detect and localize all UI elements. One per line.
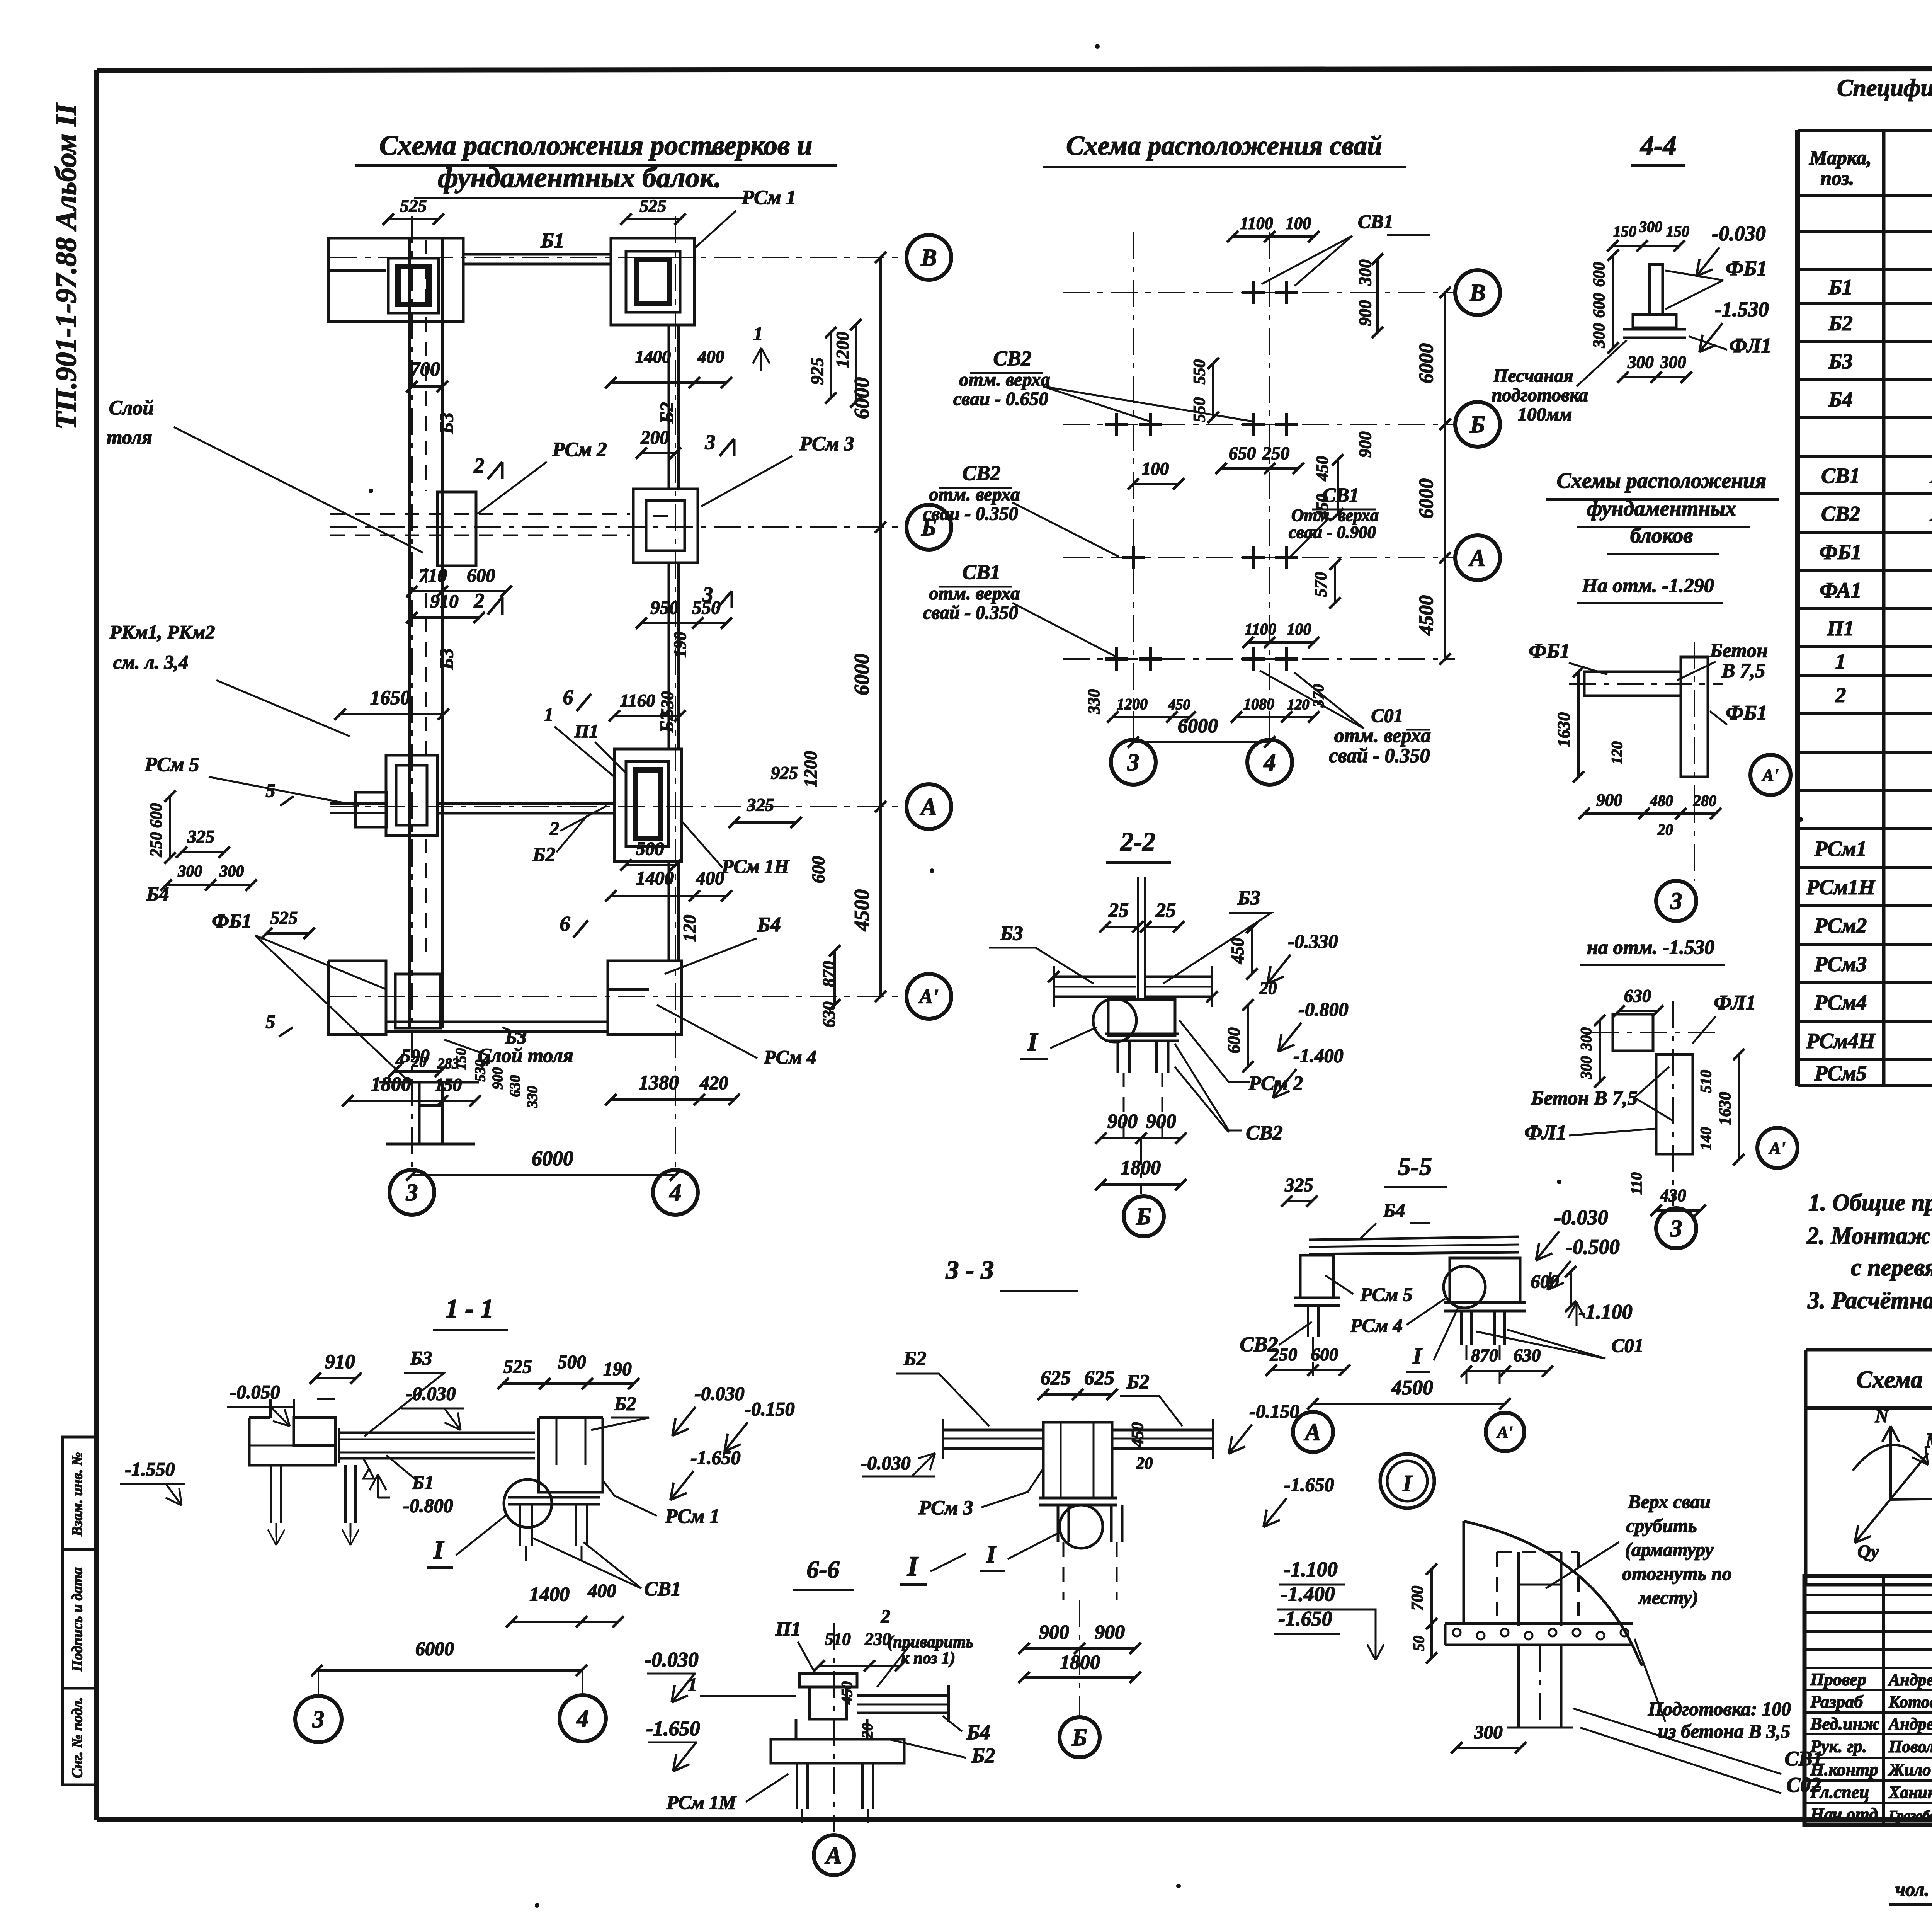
svg-text:570: 570 [1312,572,1330,597]
svg-text:ФБ1: ФБ1 [1726,257,1767,280]
svg-text:I: I [907,1551,919,1582]
svg-text:420: 420 [699,1072,728,1093]
svg-text:Марка,: Марка, [1809,147,1872,169]
svg-text:РСм3: РСм3 [1814,952,1867,976]
svg-text:Гразобожнов: Гразобожнов [1888,1808,1932,1823]
svg-text:СВ1: СВ1 [962,560,1000,584]
svg-text:325: 325 [187,827,215,847]
svg-text:3. Расчётная нагрузка на сваю: 3. Расчётная нагрузка на сваю Nсв = 25,0… [1807,1287,1932,1314]
svg-text:1: 1 [753,323,763,344]
svg-text:ТП.901-1-97.88 Альбом II: ТП.901-1-97.88 Альбом II [50,103,82,430]
svg-text:510: 510 [825,1629,851,1649]
svg-text:190: 190 [670,632,690,658]
svg-text:поз.: поз. [1820,167,1854,189]
svg-text:1200: 1200 [1117,695,1148,713]
svg-text:2: 2 [549,818,560,839]
svg-text:20: 20 [1259,979,1277,998]
svg-text:480: 480 [1650,792,1673,809]
svg-text:ФЛ1: ФЛ1 [1714,991,1756,1014]
svg-text:ФА1: ФА1 [1820,578,1861,602]
svg-text:4500: 4500 [850,889,873,931]
svg-text:900: 900 [1107,1110,1138,1132]
svg-text:1080: 1080 [1243,695,1274,713]
svg-text:Провер: Провер [1810,1670,1866,1689]
svg-text:3: 3 [1670,1216,1682,1242]
svg-text:фундаментных балок.: фундаментных балок. [438,162,721,194]
svg-text:50: 50 [1410,1636,1427,1651]
svg-text:-0.500: -0.500 [1566,1235,1619,1258]
svg-text:сваи - 0.900: сваи - 0.900 [1289,523,1376,542]
svg-text:-0.030: -0.030 [406,1382,456,1404]
svg-text:3: 3 [705,431,716,454]
svg-text:В: В [1469,280,1485,306]
svg-text:300: 300 [1577,1027,1595,1051]
svg-text:1800: 1800 [371,1073,411,1095]
svg-text:сваи - 0.650: сваи - 0.650 [953,388,1048,409]
svg-text:РСм 3: РСм 3 [918,1497,973,1519]
svg-text:4: 4 [669,1180,682,1206]
svg-text:Б2: Б2 [532,844,555,866]
svg-text:на отм. -1.530: на отм. -1.530 [1587,936,1714,958]
svg-text:25: 25 [1108,899,1129,921]
svg-text:550: 550 [692,597,721,618]
svg-text:фундаментных: фундаментных [1587,497,1736,521]
svg-text:1: 1 [1835,650,1846,673]
svg-text:430: 430 [1660,1186,1686,1205]
svg-text:-0.030: -0.030 [1554,1206,1608,1229]
svg-text:Схема расположения свай: Схема расположения свай [1066,131,1382,161]
svg-text:925: 925 [807,358,827,385]
svg-text:-0.330: -0.330 [1288,930,1338,952]
svg-text:Нач.отд.: Нач.отд. [1810,1804,1882,1824]
svg-text:-1.530: -1.530 [1715,298,1769,321]
svg-text:РСм 5: РСм 5 [144,754,199,776]
svg-text:1 - 1: 1 - 1 [446,1294,494,1323]
svg-text:А: А [1303,1419,1321,1445]
svg-text:с перевязкой швов.: с перевязкой швов. [1851,1255,1932,1281]
svg-text:Б2: Б2 [656,402,677,424]
svg-text:РСм 1Н: РСм 1Н [721,855,790,877]
svg-text:СВ1: СВ1 [644,1578,681,1600]
svg-text:280: 280 [1693,792,1716,809]
svg-text:120: 120 [1287,696,1310,713]
svg-text:870: 870 [1471,1345,1498,1365]
svg-text:А': А' [1768,1139,1786,1158]
svg-text:Мх: Мх [1925,1429,1932,1452]
svg-text:525: 525 [503,1356,532,1377]
svg-text:3: 3 [406,1180,418,1206]
svg-text:СВ1: СВ1 [1784,1747,1823,1770]
svg-text:-1.400: -1.400 [1281,1582,1335,1605]
svg-text:Б3: Б3 [1000,923,1023,945]
svg-text:А': А' [1496,1423,1513,1441]
svg-text:ФБ1: ФБ1 [1820,540,1862,564]
svg-text:СВ2: СВ2 [1246,1122,1282,1144]
svg-text:300: 300 [1660,352,1686,372]
svg-text:300: 300 [1474,1721,1503,1743]
svg-text:I: I [1412,1343,1423,1369]
svg-text:Б2: Б2 [1126,1371,1149,1393]
svg-text:-0.030: -0.030 [1712,222,1765,245]
svg-text:Бетон: Бетон [1709,640,1768,662]
svg-text:ГОСТ 19804.1-79*: ГОСТ 19804.1-79* [1930,464,1932,487]
svg-text:Ханин: Ханин [1888,1783,1932,1802]
svg-text:-0.030: -0.030 [645,1648,698,1671]
svg-text:2: 2 [474,454,485,477]
svg-text:СВ2: СВ2 [993,347,1031,370]
svg-text:Б4: Б4 [1828,388,1852,411]
svg-text:5: 5 [266,780,276,801]
svg-text:525: 525 [270,908,298,928]
svg-text:625: 625 [1041,1367,1071,1389]
svg-text:6000: 6000 [415,1638,454,1659]
svg-text:400: 400 [697,347,724,366]
svg-text:300: 300 [1590,323,1608,349]
svg-text:С01: С01 [1611,1335,1643,1356]
svg-text:отогнуть по: отогнуть по [1622,1563,1732,1584]
svg-text:N: N [1875,1406,1889,1427]
svg-text:100: 100 [1286,214,1311,233]
svg-text:Андреева: Андреева [1888,1670,1932,1689]
svg-text:330: 330 [524,1086,541,1108]
svg-text:1400: 1400 [636,867,674,889]
svg-text:3: 3 [312,1706,325,1733]
svg-text:900: 900 [1596,790,1622,810]
svg-text:ФБ1: ФБ1 [212,910,252,932]
svg-text:Б4: Б4 [966,1721,990,1744]
svg-text:Схема расположения ростверков: Схема расположения ростверков и [379,130,813,161]
svg-text:300: 300 [1627,352,1654,372]
svg-text:чол. Машкова: чол. Машкова [1895,1878,1932,1900]
svg-text:-1.650: -1.650 [1278,1607,1332,1630]
svg-text:Песчаная: Песчаная [1493,365,1573,386]
svg-text:400: 400 [696,867,724,889]
svg-text:600: 600 [1590,293,1608,318]
svg-text:450: 450 [1228,938,1247,964]
svg-text:6000: 6000 [850,654,873,695]
svg-text:5-5: 5-5 [1398,1153,1432,1181]
svg-text:6000: 6000 [850,377,873,419]
svg-text:20: 20 [1657,821,1673,838]
svg-text:ГОСТ 19804.1-79*: ГОСТ 19804.1-79* [1930,502,1932,526]
svg-text:6: 6 [563,686,573,709]
svg-text:600: 600 [1311,1345,1338,1365]
svg-text:283: 283 [437,1056,459,1072]
svg-text:1630: 1630 [1716,1092,1734,1125]
svg-text:I: I [1027,1028,1038,1056]
svg-text:СВ2: СВ2 [1821,502,1860,526]
svg-text:ФЛ1: ФЛ1 [1729,334,1771,357]
svg-text:325: 325 [747,795,774,815]
svg-text:Отм. верха: Отм. верха [1291,506,1379,525]
svg-text:Б3: Б3 [436,412,457,434]
svg-text:Схема: Схема [1856,1367,1923,1393]
svg-text:СВ1: СВ1 [1358,211,1393,232]
svg-text:1200: 1200 [833,332,853,368]
svg-text:Б1: Б1 [540,229,564,252]
svg-text:230: 230 [864,1629,891,1649]
svg-text:450: 450 [1313,456,1332,482]
svg-text:1380: 1380 [639,1072,679,1094]
svg-text:-1.650: -1.650 [690,1447,740,1468]
svg-text:1100: 1100 [1245,621,1276,638]
svg-text:450: 450 [1129,1422,1147,1448]
svg-text:(приварить: (приварить [888,1633,974,1651]
svg-text:-1.400: -1.400 [1293,1045,1343,1066]
svg-text:4500: 4500 [1415,595,1437,636]
svg-text:600: 600 [147,803,165,828]
svg-text:140: 140 [1697,1127,1714,1150]
svg-text:отм. верха: отм. верха [929,484,1020,505]
svg-text:3 - 3: 3 - 3 [946,1255,994,1284]
svg-text:300: 300 [1639,218,1662,235]
svg-text:ФБ1: ФБ1 [1726,701,1767,724]
svg-text:6-6: 6-6 [806,1556,839,1583]
svg-text:120: 120 [1608,741,1626,764]
svg-text:Б3: Б3 [1828,349,1852,373]
svg-text:700: 700 [410,358,440,380]
svg-text:РСм 2: РСм 2 [552,439,607,461]
svg-text:месту): месту) [1638,1587,1698,1608]
svg-text:250: 250 [1262,443,1290,463]
svg-text:Вед.инж: Вед.инж [1810,1714,1879,1733]
svg-text:1160: 1160 [620,691,655,711]
svg-text:СВ1: СВ1 [1322,484,1359,506]
svg-text:Б4: Б4 [757,913,781,936]
svg-text:А: А [919,794,937,820]
svg-text:4500: 4500 [1391,1376,1433,1399]
svg-text:900: 900 [1355,431,1375,458]
svg-text:1650: 1650 [370,687,410,709]
svg-text:Подготовка: 100: Подготовка: 100 [1648,1698,1791,1720]
svg-text:Спецификация к схеме расположе: Спецификация к схеме расположения ростве… [1837,75,1932,101]
svg-text:4: 4 [577,1706,589,1732]
svg-text:1100: 1100 [1240,214,1273,233]
svg-text:см. л. 3,4: см. л. 3,4 [113,651,189,673]
svg-text:1630: 1630 [1554,712,1573,747]
svg-text:150: 150 [1666,223,1689,240]
svg-text:Подпись и дата: Подпись и дата [69,1567,85,1672]
svg-text:Слой толя: Слой толя [478,1045,573,1067]
svg-text:900: 900 [1146,1110,1176,1132]
svg-text:Б3: Б3 [410,1347,432,1369]
svg-text:РСм 5: РСм 5 [1360,1284,1413,1305]
svg-text:925: 925 [771,763,798,783]
svg-text:Разраб: Разраб [1810,1692,1864,1711]
svg-text:-0.800: -0.800 [403,1495,453,1516]
svg-text:Б2: Б2 [903,1348,926,1370]
svg-text:отм. верха: отм. верха [959,369,1050,390]
svg-text:-0.150: -0.150 [1249,1400,1299,1422]
svg-text:530: 530 [658,691,677,717]
svg-text:3: 3 [1670,888,1682,914]
svg-text:550: 550 [1190,397,1209,422]
svg-text:Котова: Котова [1888,1692,1932,1711]
svg-text:А: А [1468,545,1485,571]
svg-text:20: 20 [1136,1454,1153,1473]
svg-text:900: 900 [490,1067,506,1090]
svg-text:1400: 1400 [635,347,671,366]
svg-text:толя: толя [107,426,152,448]
svg-text:РКм1, РКм2: РКм1, РКм2 [109,621,215,643]
svg-text:1200: 1200 [801,751,821,787]
svg-text:325: 325 [1284,1174,1313,1195]
svg-text:600: 600 [1224,1027,1243,1054]
svg-text:1400: 1400 [529,1583,570,1605]
svg-text:Б1: Б1 [412,1471,434,1493]
svg-text:-1.100: -1.100 [1284,1558,1337,1581]
svg-text:СВ1: СВ1 [1821,464,1860,487]
svg-text:П1: П1 [574,720,599,742]
svg-text:700: 700 [1408,1586,1427,1611]
svg-text:5: 5 [266,1011,276,1032]
svg-text:Жило: Жило [1888,1760,1931,1779]
svg-text:1. Общие примечания смотреть л: 1. Общие примечания смотреть лист. 1 [1808,1190,1932,1216]
svg-text:Верх сваи: Верх сваи [1628,1491,1711,1512]
svg-text:свай - 0.350: свай - 0.350 [1329,745,1430,767]
svg-text:3: 3 [1127,749,1139,776]
svg-text:Б: Б [1071,1725,1087,1751]
svg-text:6000: 6000 [1178,715,1218,737]
svg-text:РСм5: РСм5 [1814,1061,1867,1085]
svg-text:4: 4 [1264,749,1276,776]
svg-text:РСм 2: РСм 2 [1248,1073,1303,1095]
svg-text:Схемы расположения: Схемы расположения [1557,469,1767,493]
svg-text:2. Монтаж блоков вести на цеме: 2. Монтаж блоков вести на цементном раст… [1806,1223,1932,1249]
svg-text:20: 20 [859,1723,876,1739]
svg-text:630: 630 [507,1075,523,1097]
svg-text:2-2: 2-2 [1120,827,1156,856]
svg-text:отм. верха: отм. верха [929,582,1020,604]
svg-text:Б2: Б2 [614,1393,636,1414]
svg-text:950: 950 [650,597,679,618]
svg-text:отм. верха: отм. верха [1334,725,1431,747]
svg-text:Б1: Б1 [1828,275,1852,299]
svg-text:120: 120 [680,915,700,942]
svg-text:525: 525 [400,196,427,216]
svg-text:510: 510 [1697,1070,1714,1093]
svg-text:150: 150 [435,1075,462,1095]
svg-text:Qy: Qy [1857,1541,1879,1562]
svg-text:свай - 0.350: свай - 0.350 [923,602,1018,623]
svg-text:900: 900 [1355,300,1375,326]
svg-text:Б: Б [1469,412,1485,438]
svg-text:-1.650: -1.650 [646,1717,700,1740]
svg-text:П1: П1 [1827,616,1854,640]
svg-text:I: I [433,1536,444,1564]
svg-text:А': А' [918,986,938,1008]
svg-text:4-4: 4-4 [1639,131,1676,161]
svg-text:РСм 1М: РСм 1М [666,1791,737,1813]
svg-text:630: 630 [1514,1345,1541,1365]
svg-text:150: 150 [1613,223,1636,240]
svg-text:400: 400 [587,1580,616,1601]
svg-text:600: 600 [467,565,495,586]
svg-text:Бетон В 7,5: Бетон В 7,5 [1531,1087,1638,1109]
svg-text:-0.150: -0.150 [745,1398,794,1420]
svg-text:6000: 6000 [1415,343,1437,383]
svg-text:600: 600 [1590,262,1608,287]
svg-text:630: 630 [1624,986,1651,1006]
svg-text:РСм 4: РСм 4 [1350,1314,1403,1336]
svg-text:-1.550: -1.550 [125,1458,175,1480]
svg-text:В 7,5: В 7,5 [1721,660,1765,682]
svg-text:2: 2 [881,1605,891,1627]
svg-text:710: 710 [418,565,447,586]
svg-text:На отм. -1.290: На отм. -1.290 [1582,575,1714,597]
svg-text:А': А' [1761,766,1779,785]
svg-text:6000: 6000 [1415,478,1437,519]
svg-text:РСм4Н: РСм4Н [1806,1029,1876,1053]
svg-text:190: 190 [603,1358,632,1379]
svg-text:6: 6 [560,912,570,935]
svg-text:550: 550 [1190,359,1209,385]
svg-text:330: 330 [1085,689,1103,715]
svg-text:РСм4: РСм4 [1814,991,1867,1014]
svg-text:590: 590 [401,1045,430,1066]
svg-text:Взам. инв. №: Взам. инв. № [69,1452,85,1536]
svg-text:-0.030: -0.030 [694,1382,744,1404]
svg-text:ФЛ1: ФЛ1 [1524,1121,1566,1144]
svg-text:I: I [986,1540,997,1568]
svg-text:РСм1Н: РСм1Н [1806,875,1876,899]
svg-text:910: 910 [325,1351,355,1373]
svg-text:Б3: Б3 [436,648,457,670]
svg-text:625: 625 [1084,1367,1114,1389]
svg-text:Слой: Слой [109,397,154,419]
svg-text:-1.100: -1.100 [1578,1300,1632,1323]
svg-text:Б4: Б4 [1383,1199,1405,1221]
svg-text:900: 900 [1095,1621,1125,1643]
svg-text:250: 250 [147,832,165,858]
svg-text:Б2: Б2 [971,1744,995,1767]
svg-text:С02: С02 [1786,1773,1821,1796]
svg-text:1: 1 [688,1674,697,1695]
svg-text:блоков: блоков [1630,524,1693,548]
svg-text:1: 1 [544,704,554,725]
svg-text:(арматуру: (арматуру [1625,1539,1714,1560]
svg-text:250: 250 [1270,1345,1298,1365]
svg-text:-0.800: -0.800 [1298,998,1348,1020]
svg-text:200: 200 [640,427,669,448]
svg-text:300: 300 [219,863,244,880]
svg-text:I: I [1402,1471,1413,1496]
svg-text:300: 300 [1577,1056,1595,1079]
svg-text:А: А [824,1842,842,1869]
svg-text:Б2: Б2 [1828,312,1852,335]
svg-text:П1: П1 [775,1618,801,1640]
svg-text:650: 650 [1229,443,1256,463]
svg-text:Снг. № подл.: Снг. № подл. [69,1697,85,1779]
svg-text:к поз 1): к поз 1) [901,1649,956,1667]
svg-text:600: 600 [1531,1271,1559,1292]
svg-text:600: 600 [808,856,828,884]
svg-text:срубить: срубить [1626,1515,1697,1536]
svg-text:сваи - 0.350: сваи - 0.350 [923,503,1018,524]
svg-text:ФБ1: ФБ1 [1529,639,1570,662]
svg-text:С01: С01 [1371,705,1403,726]
svg-text:-0.050: -0.050 [230,1381,280,1403]
svg-text:Б4: Б4 [146,883,169,905]
svg-text:-1.650: -1.650 [1284,1474,1334,1495]
svg-text:500: 500 [636,838,664,859]
svg-text:РСм 1: РСм 1 [665,1505,719,1527]
svg-text:Поволяев: Поволяев [1888,1737,1932,1756]
svg-text:РСм 1: РСм 1 [741,187,796,209]
svg-text:100мм: 100мм [1518,403,1572,425]
svg-text:100: 100 [1142,459,1169,479]
svg-text:25: 25 [1155,899,1176,921]
